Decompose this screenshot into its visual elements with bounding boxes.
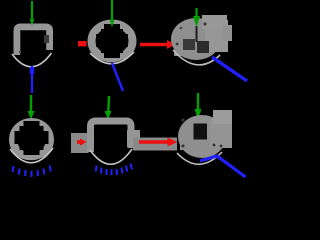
ring R2 bottom arc (90, 52, 134, 64)
ring R3 top-right blob (171, 15, 232, 60)
blue bent line B6 from R6 down-right (200, 156, 246, 177)
green arrow G3 into R3 (193, 8, 200, 27)
ring R2 top-middle body (annulus open at bottom) (92, 24, 133, 63)
green arrow G5 into R5 (105, 96, 112, 120)
gray plate with red arrow R4-R5 (71, 133, 89, 153)
red arrow R2-R3 (140, 40, 176, 49)
red dash R1-R2 (78, 41, 87, 46)
ring R5 bottom arc (90, 149, 132, 164)
green line G1 into R1 (30, 1, 34, 26)
blue tick row under R5 (96, 164, 132, 176)
green arrow G6 into R6 (195, 93, 202, 120)
ring R1 bottom arc (12, 53, 52, 67)
ring R6 bottom arc (177, 152, 222, 164)
ring R3 bottom arc (173, 50, 220, 65)
blue tick row under R4 (13, 166, 51, 178)
green arrow G4 into R4 (28, 95, 35, 120)
green line G2 into R2 (110, 0, 114, 28)
ring R4 bottom arc (10, 148, 53, 163)
blue line B3 from R3 down-right (212, 57, 247, 81)
ring R6 bottom-right blob (178, 110, 232, 158)
ring R4 bottom-left body (annulus open at bottom) (12, 121, 51, 162)
ring R1 top-left body (17, 27, 50, 55)
gray band with red arrow R5-R6 (133, 138, 178, 151)
blue line B1 below R1 (31, 66, 33, 93)
ring R5 bottom-middle body (91, 121, 141, 153)
blue line B2 from R2 down-right (112, 63, 123, 91)
